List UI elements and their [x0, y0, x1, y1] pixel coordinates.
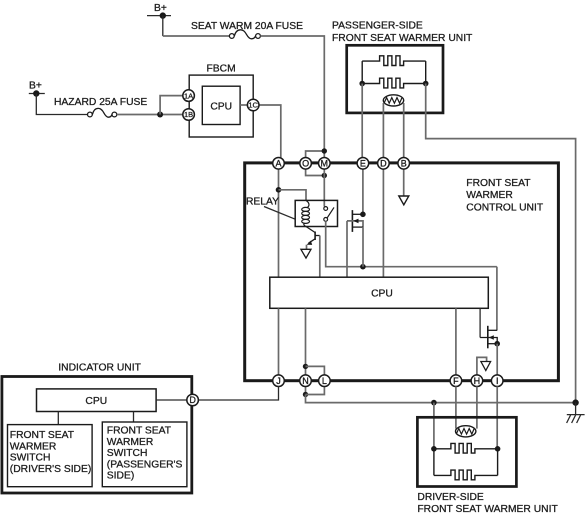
svg-text:(PASSENGER'S: (PASSENGER'S	[107, 459, 183, 470]
svg-text:HAZARD 25A FUSE: HAZARD 25A FUSE	[54, 97, 147, 108]
svg-text:WARMER: WARMER	[10, 441, 57, 452]
svg-text:D: D	[189, 395, 196, 405]
svg-text:L: L	[322, 376, 327, 386]
svg-text:SWITCH: SWITCH	[10, 453, 51, 464]
svg-text:FBCM: FBCM	[207, 64, 236, 75]
svg-text:B+: B+	[29, 81, 42, 92]
svg-text:CONTROL UNIT: CONTROL UNIT	[466, 202, 544, 213]
svg-text:M: M	[321, 159, 329, 169]
svg-text:(DRIVER'S SIDE): (DRIVER'S SIDE)	[10, 464, 92, 475]
svg-text:1A: 1A	[184, 91, 193, 100]
svg-text:RELAY: RELAY	[246, 197, 279, 208]
svg-text:FRONT SEAT WARMER UNIT: FRONT SEAT WARMER UNIT	[332, 33, 473, 44]
svg-text:SIDE): SIDE)	[107, 471, 134, 482]
svg-text:DRIVER-SIDE: DRIVER-SIDE	[417, 492, 483, 503]
svg-text:INDICATOR UNIT: INDICATOR UNIT	[58, 363, 141, 374]
svg-text:FRONT SEAT WARMER UNIT: FRONT SEAT WARMER UNIT	[417, 504, 558, 515]
svg-text:I: I	[496, 376, 499, 386]
svg-text:J: J	[276, 376, 281, 386]
svg-text:D: D	[380, 159, 387, 169]
svg-text:WARMER: WARMER	[466, 190, 513, 201]
svg-text:SWITCH: SWITCH	[107, 448, 148, 459]
svg-text:B+: B+	[154, 3, 167, 14]
svg-text:SEAT WARM 20A FUSE: SEAT WARM 20A FUSE	[191, 21, 303, 32]
svg-text:A: A	[275, 159, 281, 169]
svg-text:F: F	[453, 376, 459, 386]
svg-text:CPU: CPU	[371, 289, 393, 300]
svg-text:1C: 1C	[248, 101, 258, 110]
svg-text:WARMER: WARMER	[107, 437, 154, 448]
svg-text:FRONT SEAT: FRONT SEAT	[107, 426, 172, 437]
svg-text:E: E	[360, 159, 366, 169]
svg-text:CPU: CPU	[210, 101, 232, 112]
svg-text:N: N	[302, 376, 309, 386]
svg-text:1B: 1B	[184, 110, 193, 119]
svg-text:H: H	[474, 376, 481, 386]
svg-text:FRONT SEAT: FRONT SEAT	[466, 178, 531, 189]
svg-text:CPU: CPU	[85, 396, 107, 407]
svg-text:B: B	[401, 159, 407, 169]
svg-text:FRONT SEAT: FRONT SEAT	[10, 430, 75, 441]
svg-text:PASSENGER-SIDE: PASSENGER-SIDE	[332, 21, 423, 32]
svg-text:O: O	[302, 159, 309, 169]
